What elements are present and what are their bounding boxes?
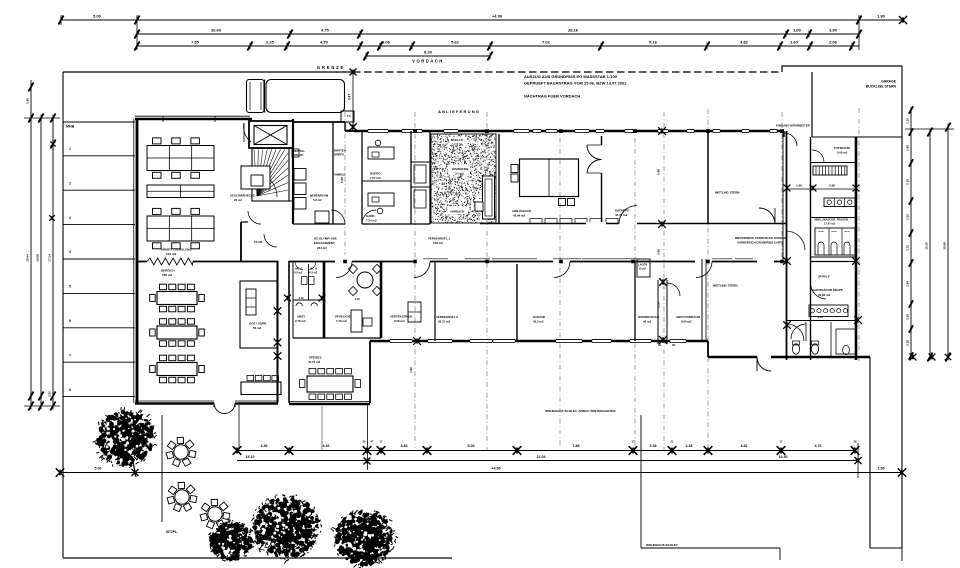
svg-text:KUECHE: KUECHE — [533, 315, 545, 319]
desk cluster 2 upper hall — [147, 185, 214, 198]
outdoor round table 2 — [175, 490, 189, 504]
elevator — [249, 121, 293, 148]
svg-text:2.55: 2.55 — [906, 214, 910, 220]
svg-text:ANMELD.: ANMELD. — [334, 173, 346, 177]
svg-text:5.8 m2: 5.8 m2 — [313, 198, 322, 202]
svg-text:4.82: 4.82 — [741, 444, 748, 448]
svg-text:VERKEHRSFL.1: VERKEHRSFL.1 — [428, 237, 450, 241]
svg-text:768 m2: 768 m2 — [162, 273, 173, 277]
tree 1 top left — [93, 407, 157, 468]
svg-text:GRENZE: GRENZE — [317, 65, 345, 70]
vertical dim grenze to building — [352, 72, 354, 128]
svg-text:+4.90: +4.90 — [492, 14, 503, 19]
putzraum — [811, 162, 857, 164]
svg-text:EINGANG MITARBEITER: EINGANG MITARBEITER — [776, 124, 811, 128]
svg-text:GGE / VORR.: GGE / VORR. — [249, 322, 267, 326]
svg-text:7.57 m2: 7.57 m2 — [370, 176, 381, 180]
column squares on north wall — [413, 129, 417, 133]
svg-text:+4.90: +4.90 — [491, 467, 500, 471]
garage outline — [782, 66, 902, 72]
svg-text:2.38: 2.38 — [650, 444, 657, 448]
corridor door arcs east block — [787, 231, 806, 250]
svg-text:5.60 m2: 5.60 m2 — [837, 151, 848, 155]
right dim connectors — [905, 128, 954, 130]
svg-text:1.60: 1.60 — [790, 40, 799, 45]
wc block east lower — [787, 320, 857, 322]
svg-text:KG OLYMP+ADE: KG OLYMP+ADE — [314, 237, 337, 241]
svg-text:3.90: 3.90 — [829, 28, 838, 33]
GRENZE boundary line — [63, 71, 353, 73]
svg-text:VERKEHRSFL.2: VERKEHRSFL.2 — [436, 315, 458, 319]
svg-text:BAD/WASCHR KNAPP: BAD/WASCHR KNAPP — [812, 288, 843, 292]
west site boundary — [62, 72, 64, 558]
svg-text:3.36: 3.36 — [261, 444, 268, 448]
svg-text:5.00: 5.00 — [93, 14, 102, 19]
tree 2 bottom left small — [208, 519, 255, 562]
buero/gard rooms walls — [361, 131, 363, 224]
upper mid walls - warte/nebenraum — [293, 121, 345, 123]
svg-text:1.60: 1.60 — [793, 28, 802, 33]
svg-text:GARAGE: GARAGE — [881, 80, 897, 84]
svg-text:WOHNHAUS SCHLEY, ANBAU WINTERG: WOHNHAUS SCHLEY, ANBAU WINTERGARTEN — [545, 409, 616, 413]
desk cluster 3 upper hall — [147, 216, 214, 241]
svg-text:BEREICH: BEREICH — [161, 269, 175, 273]
door arcs on corridor — [336, 262, 352, 278]
outdoor round table 1 — [174, 445, 188, 459]
daempfe room east wall — [707, 131, 709, 224]
svg-text:MHB: MHB — [66, 125, 75, 129]
svg-text:7.88: 7.88 — [573, 444, 580, 448]
east outer wall — [855, 137, 858, 360]
hall south wall — [135, 402, 214, 404]
svg-text:3.5 m2: 3.5 m2 — [455, 172, 464, 176]
terrace boundary line — [161, 415, 163, 522]
svg-text:4.5 m2: 4.5 m2 — [294, 271, 303, 275]
svg-text:VORBEREICH GRUNDRISS CARTE: VORBEREICH GRUNDRISS CARTE — [737, 241, 784, 245]
TEL niche on top wall — [341, 111, 354, 122]
hall entrance double door — [214, 403, 225, 414]
svg-text:1.10: 1.10 — [906, 118, 910, 124]
left dimension line outer — [30, 80, 32, 406]
hall west wall — [136, 119, 139, 403]
svg-text:ENGAGEMENT: ENGAGEMENT — [314, 241, 335, 245]
spuelkueche desk — [351, 310, 362, 332]
svg-text:15.36: 15.36 — [925, 242, 929, 250]
corridor counters/windows on wall — [423, 258, 448, 260]
svg-text:4.76: 4.76 — [817, 315, 823, 319]
svg-text:2.06: 2.06 — [829, 40, 838, 45]
svg-text:3.06: 3.06 — [382, 40, 391, 45]
cabinet column nebenraum — [294, 169, 306, 181]
east block internal dim line — [787, 188, 857, 190]
equipment counters south of kitchen — [480, 223, 619, 225]
svg-text:3.84: 3.84 — [401, 444, 408, 448]
svg-text:VORDACH: VORDACH — [450, 210, 464, 214]
svg-text:PUTZRAUM: PUTZRAUM — [834, 146, 850, 150]
svg-text:6: 6 — [69, 319, 71, 323]
svg-text:4.46: 4.46 — [323, 444, 330, 448]
svg-text:15.98: 15.98 — [943, 242, 947, 250]
svg-text:40.78 m2: 40.78 m2 — [615, 213, 628, 217]
speise room walls — [369, 341, 371, 403]
svg-text:15.10: 15.10 — [246, 455, 255, 459]
svg-text:2.76 m2: 2.76 m2 — [295, 319, 306, 323]
svg-text:WC H: WC H — [310, 267, 317, 271]
buero desk — [368, 147, 394, 159]
break zigzag in hall — [147, 258, 193, 265]
svg-text:29.86 m2: 29.86 m2 — [818, 293, 831, 297]
desk cluster 1 upper hall — [147, 146, 214, 171]
left dimension line inner — [52, 118, 54, 406]
svg-text:17.24: 17.24 — [48, 254, 52, 262]
upper corridor wall y224 — [293, 223, 345, 225]
counter in stipple area — [483, 176, 495, 219]
gge vorr room — [240, 281, 277, 348]
speise room table — [307, 376, 353, 392]
svg-text:GEPRUEFT BAUANTRAG VOM 25.06.: GEPRUEFT BAUANTRAG VOM 25.06. BZW 13.07.… — [524, 81, 627, 86]
svg-text:1.59: 1.59 — [657, 302, 661, 308]
svg-text:1.90: 1.90 — [878, 467, 885, 471]
svg-text:FLUR: FLUR — [254, 240, 263, 244]
tree 4 bottom center right — [331, 509, 398, 568]
left dimension line mid — [40, 118, 42, 406]
svg-text:10.30: 10.30 — [779, 455, 788, 459]
svg-text:VORDACH: VORDACH — [412, 59, 444, 64]
svg-text:2.25: 2.25 — [266, 40, 275, 45]
svg-text:4.70: 4.70 — [320, 40, 329, 45]
svg-text:BUCKLIGE STERN: BUCKLIGE STERN — [866, 85, 897, 89]
svg-text:SPEISES.: SPEISES. — [309, 356, 322, 360]
outdoor round table 3 — [208, 507, 222, 521]
svg-text:2.10: 2.10 — [298, 296, 304, 300]
right dimension line outer — [947, 127, 949, 357]
svg-text:OL: OL — [672, 343, 676, 347]
waschkueche corridor walls — [634, 262, 636, 342]
washbasin row 1 — [824, 198, 855, 207]
svg-text:40 m2: 40 m2 — [643, 320, 652, 324]
south-east outer wall — [708, 356, 757, 359]
main north wall with windows — [354, 130, 784, 133]
washbasin row 2 — [809, 305, 848, 317]
hall north wall — [135, 118, 252, 121]
svg-text:7.02: 7.02 — [542, 40, 551, 45]
serving counter in hall — [241, 382, 281, 395]
svg-text:5.62: 5.62 — [451, 40, 460, 45]
svg-text:5: 5 — [69, 285, 71, 289]
svg-text:WC D: WC D — [295, 267, 302, 271]
svg-text:3: 3 — [69, 216, 71, 220]
svg-text:4.70: 4.70 — [321, 28, 330, 33]
south site boundary — [63, 557, 452, 559]
stair with fan treads — [252, 148, 289, 201]
svg-text:1.98: 1.98 — [409, 367, 413, 373]
mietling stern room door — [759, 208, 775, 224]
svg-text:5.00: 5.00 — [95, 467, 102, 471]
bottom dimension line C — [60, 472, 902, 474]
svg-text:3P PFLE: 3P PFLE — [818, 275, 830, 279]
svg-text:19.44: 19.44 — [26, 254, 30, 262]
stair comb east — [813, 166, 847, 175]
svg-text:WOHNKUECHE: WOHNKUECHE — [638, 315, 659, 319]
stipple delivery area — [431, 134, 496, 223]
svg-text:3.28: 3.28 — [906, 314, 910, 320]
svg-text:3.28: 3.28 — [906, 340, 910, 346]
wohnhaus boundary lines — [640, 415, 642, 548]
svg-text:SITZPL.: SITZPL. — [166, 530, 178, 534]
verteilerkueche walls — [434, 262, 436, 342]
bespr room round table — [380, 262, 383, 339]
svg-text:28.16: 28.16 — [568, 28, 579, 33]
svg-text:NACHTRAG FUER VORDACH: NACHTRAG FUER VORDACH — [524, 94, 580, 99]
truck in yard — [247, 80, 265, 113]
abst vorraum wall — [701, 259, 703, 341]
north-east entrance walls — [783, 131, 785, 137]
svg-text:9.06 m2: 9.06 m2 — [394, 319, 405, 323]
bottom dimension line A — [237, 450, 855, 452]
grid stars — [658, 127, 666, 135]
svg-text:38.31 m2: 38.31 m2 — [438, 320, 451, 324]
svg-text:1.48: 1.48 — [354, 297, 360, 301]
svg-text:WARENUEB.: WARENUEB. — [452, 167, 469, 171]
vorr kuehlr closets — [429, 131, 431, 224]
return desk near stair — [241, 166, 270, 189]
svg-text:AUSZUG AUS GRUNDRISS EG MASSST: AUSZUG AUS GRUNDRISS EG MASSSTAB 1:100 — [524, 74, 618, 79]
svg-text:4.76: 4.76 — [815, 444, 822, 448]
svg-text:NEBENRAUM: NEBENRAUM — [310, 194, 329, 198]
dimension chain line 1 (top, +4.90 level) — [61, 19, 903, 21]
svg-text:7.45 m2: 7.45 m2 — [336, 319, 347, 323]
hall east wall lower — [277, 261, 279, 403]
main east block west wall — [786, 131, 788, 360]
svg-text:158 m2: 158 m2 — [433, 241, 443, 245]
svg-text:1.90: 1.90 — [26, 98, 30, 104]
svg-text:VERTEILERKUE.: VERTEILERKUE. — [390, 315, 413, 319]
lager box — [637, 259, 650, 277]
svg-text:3.47: 3.47 — [348, 94, 352, 100]
kitchen west wall — [498, 134, 500, 224]
svg-text:SPUELKUE.: SPUELKUE. — [335, 315, 352, 319]
wc block center — [292, 261, 294, 300]
svg-text:1.60: 1.60 — [796, 184, 802, 188]
east site boundary bottom — [870, 547, 902, 549]
right dimension line mid — [929, 132, 931, 357]
svg-text:10.60: 10.60 — [211, 28, 222, 33]
svg-text:2.10: 2.10 — [906, 179, 910, 185]
svg-text:BRIEFK.: BRIEFK. — [334, 153, 345, 157]
svg-text:17.67 m2: 17.67 m2 — [824, 222, 836, 226]
svg-text:44.07 m2: 44.07 m2 — [308, 360, 321, 364]
svg-text:BUERO: BUERO — [370, 172, 381, 176]
svg-text:19.68: 19.68 — [36, 254, 40, 262]
tree 3 bottom center large — [250, 495, 322, 564]
svg-text:102 m2: 102 m2 — [166, 252, 177, 256]
svg-text:ABST./VORRAUM: ABST./VORRAUM — [676, 315, 701, 319]
svg-text:UMKL./WASCHR. FRAUEN: UMKL./WASCHR. FRAUEN — [814, 218, 848, 222]
svg-text:22.04: 22.04 — [537, 455, 546, 459]
svg-text:ANLIEFERUNG: ANLIEFERUNG — [438, 109, 480, 114]
svg-text:VERTEIL-: VERTEIL- — [293, 149, 305, 153]
svg-text:MIETLING STERN: MIETLING STERN — [715, 191, 739, 195]
right dimension line inner — [910, 110, 912, 357]
gard desk — [368, 193, 394, 206]
main south wall center with windows — [370, 340, 708, 343]
svg-text:9.06 m2: 9.06 m2 — [681, 320, 692, 324]
svg-text:GARD.: GARD. — [366, 214, 376, 218]
svg-text:2: 2 — [69, 181, 71, 185]
kueche lower room wall — [516, 264, 518, 341]
svg-text:50 m2: 50 m2 — [253, 326, 262, 330]
svg-text:5.98: 5.98 — [657, 169, 661, 175]
svg-text:MIETBEREICH STERN BUCK KONZEPT: MIETBEREICH STERN BUCK KONZEPT — [735, 236, 788, 240]
dimension line 4 VORDACH — [366, 55, 490, 57]
svg-text:20 m2: 20 m2 — [234, 198, 242, 202]
svg-text:3.66: 3.66 — [657, 249, 661, 255]
svg-text:7: 7 — [69, 353, 71, 357]
left dim connector ticks — [24, 117, 60, 119]
abst room — [293, 337, 381, 339]
structural grid lines dashed — [344, 112, 346, 255]
wc stalls east upper — [815, 228, 855, 255]
column squares on corridor wall — [343, 260, 347, 264]
svg-text:7.34 m2: 7.34 m2 — [366, 219, 377, 223]
sub room right bottom east — [836, 329, 856, 354]
svg-text:8: 8 — [69, 388, 71, 392]
dim extension from entrance — [238, 405, 240, 452]
svg-text:T.6: T.6 — [347, 114, 351, 118]
bottom dimension line B — [237, 460, 858, 462]
svg-text:GESCHIRRUECKG.: GESCHIRRUECKG. — [230, 194, 256, 198]
corridor south wall y261 — [138, 261, 147, 263]
svg-text:43.94 m2: 43.94 m2 — [513, 214, 526, 218]
svg-text:1: 1 — [69, 147, 71, 151]
svg-text:2.60: 2.60 — [48, 391, 52, 397]
svg-text:ARB.KUECHE: ARB.KUECHE — [512, 209, 531, 213]
svg-text:MUELLR.: MUELLR. — [451, 138, 464, 142]
svg-text:LAGER: LAGER — [638, 263, 647, 267]
svg-text:WARTEN-: WARTEN- — [334, 149, 347, 153]
svg-text:4.3 m2: 4.3 m2 — [309, 271, 318, 275]
flur walls near hall — [240, 222, 242, 262]
dim extension verticals top — [136, 15, 138, 50]
svg-text:40.2 m2: 40.2 m2 — [533, 320, 544, 324]
svg-text:ABST.: ABST. — [297, 315, 306, 319]
svg-text:4: 4 — [69, 250, 71, 254]
svg-text:2.86: 2.86 — [829, 184, 835, 188]
wc door arcs — [295, 262, 303, 270]
svg-text:DAEMPFE: DAEMPFE — [615, 209, 629, 213]
svg-text:ARCHIV: ARCHIV — [293, 153, 304, 157]
svg-text:4.82: 4.82 — [740, 40, 749, 45]
svg-text:1.90: 1.90 — [877, 14, 886, 19]
svg-text:10 m2: 10 m2 — [639, 267, 647, 271]
dimension chain line 3 — [137, 45, 859, 47]
svg-text:2.38: 2.38 — [686, 444, 693, 448]
svg-text:5.48: 5.48 — [340, 177, 344, 183]
svg-text:2.48: 2.48 — [906, 145, 910, 151]
svg-text:WOHNHAUS SCHLEY: WOHNHAUS SCHLEY — [646, 543, 679, 547]
svg-text:ARBEIT / SCHULUNG: ARBEIT / SCHULUNG — [161, 248, 192, 252]
corridor wall right block — [810, 137, 812, 360]
svg-text:5.16: 5.16 — [649, 40, 658, 45]
svg-text:MIETLING STERN: MIETLING STERN — [713, 284, 737, 288]
svg-text:3.72: 3.72 — [906, 245, 910, 251]
banquet tables lower hall — [157, 292, 197, 305]
svg-text:7.55: 7.55 — [191, 40, 200, 45]
svg-text:2.94: 2.94 — [906, 281, 910, 287]
kitchen east wall with double door — [601, 136, 603, 145]
svg-text:8.20: 8.20 — [424, 50, 433, 55]
wall right of stair block — [292, 119, 294, 224]
door to elevator lobby — [244, 123, 251, 142]
extension from center corner — [367, 403, 369, 470]
parking stalls strip — [63, 121, 135, 123]
svg-text:5.00: 5.00 — [468, 444, 475, 448]
kitchen island — [520, 159, 579, 197]
svg-text:264 m2: 264 m2 — [317, 246, 327, 250]
dimension chain line 2 — [137, 33, 859, 35]
